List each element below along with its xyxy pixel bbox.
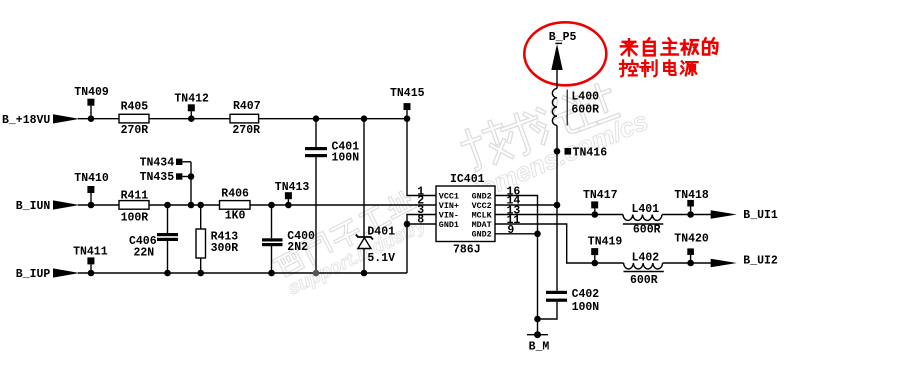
- wire pin9 GND2: [495, 233, 538, 235]
- svg-text:270R: 270R: [121, 124, 149, 137]
- node junction dot pin8: [404, 221, 411, 228]
- test point TN409: [74, 86, 109, 116]
- node junction dot C400: [268, 202, 275, 209]
- node junction dot C406 bottom: [164, 270, 171, 277]
- capacitor C402: [546, 288, 599, 314]
- svg-text:B_IUP: B_IUP: [16, 268, 51, 281]
- resistor R413: [196, 205, 238, 273]
- capacitor C400: [262, 205, 315, 273]
- svg-text:TN435: TN435: [140, 171, 175, 184]
- svg-text:TN420: TN420: [674, 232, 709, 245]
- svg-text:TN411: TN411: [73, 245, 108, 258]
- node junction dot C400 bottom: [268, 270, 275, 277]
- resistor R405: [119, 101, 149, 138]
- test point TN417: [583, 189, 618, 218]
- svg-text:100N: 100N: [332, 152, 360, 165]
- node junction dot TN412: [188, 115, 195, 122]
- svg-text:B_UI2: B_UI2: [743, 255, 778, 268]
- node junction dot TN413: [285, 202, 292, 209]
- node junction dot pin9: [534, 231, 541, 238]
- svg-text:2N2: 2N2: [287, 241, 308, 254]
- test point TN411: [73, 245, 108, 270]
- wire coil to VCC2 node: [556, 126, 558, 206]
- watermark CJK line A (西门子工业 approximation): [273, 190, 416, 278]
- resistor R411: [119, 189, 149, 224]
- svg-text:VCC1: VCC1: [439, 191, 459, 201]
- svg-text:IC401: IC401: [450, 173, 485, 186]
- svg-text:L401: L401: [632, 203, 660, 216]
- svg-text:TN415: TN415: [390, 87, 425, 100]
- svg-text:TN410: TN410: [74, 172, 109, 185]
- node junction dot D401 top: [361, 115, 368, 122]
- test point TN418: [674, 189, 709, 218]
- wire TN434/435 vertical: [190, 162, 192, 205]
- test point TN410: [74, 172, 109, 202]
- wire IUP rail: [78, 272, 407, 274]
- test point TN419: [588, 236, 623, 267]
- svg-text:TN417: TN417: [583, 189, 618, 202]
- watermark CJK line B (技术论坛 approximation): [459, 80, 620, 173]
- wire pin16 GND2 to ground vertical: [495, 196, 538, 335]
- svg-text:1K0: 1K0: [225, 209, 246, 222]
- zener diode D401: [356, 119, 395, 273]
- node junction dot R413: [197, 202, 204, 209]
- wire pin13 MCLK to L401: [495, 214, 623, 216]
- svg-text:L402: L402: [632, 251, 660, 264]
- node junction dot TN409: [88, 115, 95, 122]
- test point TN435: [140, 171, 195, 184]
- svg-text:100R: 100R: [121, 212, 149, 225]
- wire TN415 vertical to IC pin 1: [407, 119, 436, 196]
- svg-text:VIN-: VIN-: [439, 210, 459, 220]
- svg-text:VIN+: VIN+: [439, 201, 459, 211]
- node junction dot TN415: [404, 115, 411, 122]
- wire L401 to B_UI1: [662, 214, 711, 216]
- op-amp / IC U401 box: [436, 173, 495, 257]
- svg-text:VCC2: VCC2: [472, 201, 492, 211]
- ground net B_M: [527, 331, 549, 353]
- test point TN416: [554, 147, 608, 160]
- svg-text:TN409: TN409: [74, 86, 109, 99]
- svg-text:600R: 600R: [630, 274, 658, 287]
- capacitor C406: [129, 205, 178, 273]
- svg-text:100N: 100N: [572, 301, 600, 314]
- svg-text:600R: 600R: [633, 224, 661, 237]
- annotation red ellipse around B_P5: [524, 22, 606, 85]
- svg-text:GND2: GND2: [472, 230, 492, 240]
- svg-text:TN419: TN419: [588, 236, 623, 249]
- node junction dot R413 bottom: [197, 270, 204, 277]
- svg-text:TN416: TN416: [573, 147, 608, 160]
- node junction dot TN434/TN435: [188, 202, 195, 209]
- svg-text:L400: L400: [571, 90, 599, 103]
- test point TN412: [174, 93, 209, 117]
- node junction dot C406: [164, 202, 171, 209]
- wire C402 bottom to ground vertical: [538, 302, 558, 319]
- wire pin11 MDAT down to UI2 row: [495, 224, 624, 263]
- annotation red text line1 来自主板的: [621, 38, 718, 55]
- test point TN413: [275, 181, 310, 202]
- svg-text:B_IUN: B_IUN: [16, 200, 51, 213]
- annotation red text line2 控制电源: [620, 60, 698, 76]
- node junction dot D401 bottom: [361, 270, 368, 277]
- svg-text:R405: R405: [121, 101, 149, 114]
- wire IUN rail: [78, 204, 436, 206]
- svg-text:R407: R407: [233, 100, 261, 113]
- svg-text:D401: D401: [367, 225, 395, 238]
- node junction dot C401 bottom: [313, 270, 320, 277]
- wire pin14 VCC2: [495, 204, 557, 206]
- svg-text:B_UI1: B_UI1: [743, 209, 778, 222]
- svg-text:GND2: GND2: [472, 191, 492, 201]
- svg-text:R406: R406: [221, 187, 249, 200]
- svg-text:TN413: TN413: [275, 181, 310, 194]
- svg-text:R411: R411: [121, 189, 149, 202]
- svg-text:B_+18VU: B_+18VU: [2, 114, 50, 127]
- svg-text:8: 8: [417, 213, 424, 226]
- port B_UI2 arrow: [711, 259, 737, 268]
- port B_+18VU arrow: [53, 114, 80, 123]
- svg-text:C402: C402: [572, 288, 600, 301]
- svg-text:TN434: TN434: [140, 157, 175, 170]
- test point TN415: [390, 87, 425, 116]
- wire +18V rail: [78, 118, 407, 120]
- resistor R407: [230, 100, 261, 137]
- svg-text:786J: 786J: [453, 244, 481, 257]
- port B_IUP arrow: [53, 268, 80, 277]
- port B_UI1 arrow: [711, 210, 737, 219]
- test point TN434: [140, 157, 191, 170]
- wire VCC2 node down to C402: [556, 205, 558, 291]
- resistor R406: [220, 187, 251, 222]
- svg-text:GND1: GND1: [439, 220, 459, 230]
- node junction dot C401 top: [313, 115, 320, 122]
- svg-text:270R: 270R: [232, 124, 260, 137]
- capacitor C401: [305, 119, 359, 273]
- wire L402 to B_UI2: [663, 262, 711, 264]
- net flag B_P5: [549, 31, 577, 70]
- svg-text:300R: 300R: [211, 242, 239, 255]
- svg-text:MDAT: MDAT: [472, 220, 492, 230]
- node junction dot TN411: [88, 270, 95, 277]
- wire IUP to IC pins 3/8 vertical: [407, 215, 436, 274]
- node junction dot ground/C402: [534, 316, 541, 323]
- node junction dot VCC2: [554, 202, 561, 209]
- node junction dot TN410: [88, 202, 95, 209]
- svg-text:5.1V: 5.1V: [367, 252, 395, 265]
- port B_IUN arrow: [53, 200, 80, 209]
- inductor L400: [552, 89, 599, 126]
- svg-text:TN418: TN418: [674, 189, 709, 202]
- wire B_P5 arrow to coil: [556, 70, 558, 89]
- svg-text:9: 9: [507, 224, 514, 237]
- inductor L402: [624, 251, 664, 287]
- svg-text:22N: 22N: [134, 246, 155, 259]
- svg-text:B_M: B_M: [529, 340, 550, 353]
- svg-text:600R: 600R: [571, 103, 599, 116]
- test point TN420: [674, 232, 709, 266]
- svg-text:MCLK: MCLK: [472, 210, 493, 220]
- inductor L401: [623, 203, 663, 237]
- svg-text:TN412: TN412: [174, 93, 209, 106]
- svg-text:B_P5: B_P5: [549, 31, 577, 44]
